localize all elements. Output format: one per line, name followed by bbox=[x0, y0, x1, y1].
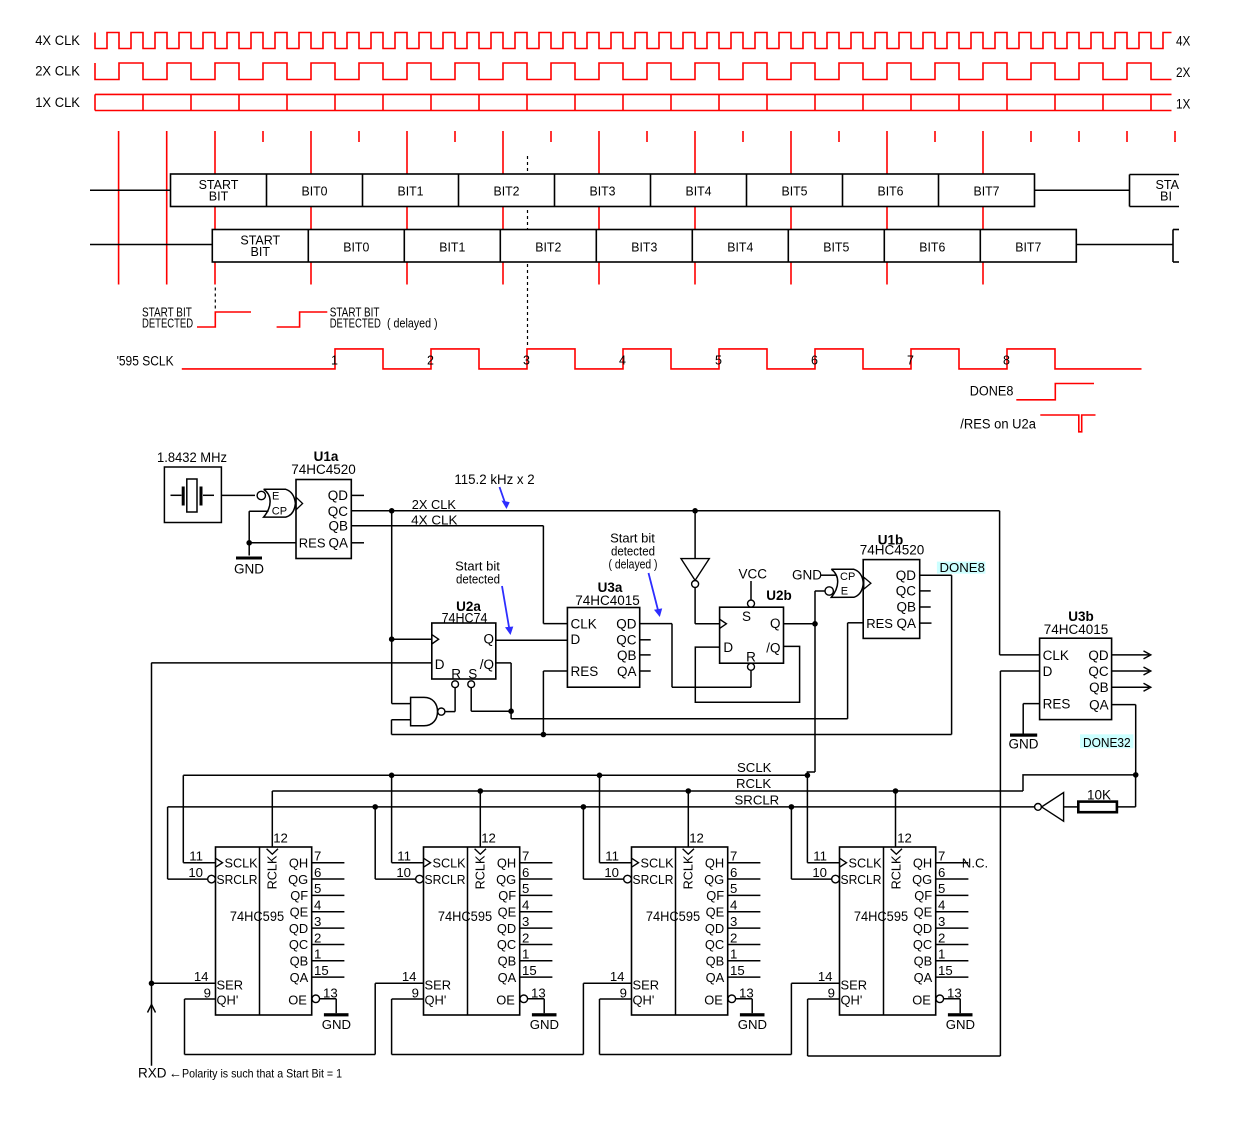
svg-text:QH': QH' bbox=[841, 993, 863, 1008]
svg-text:7: 7 bbox=[730, 849, 737, 864]
svg-text:CLK: CLK bbox=[571, 617, 597, 632]
svg-text:QC: QC bbox=[289, 937, 308, 952]
svg-text:74HC4520: 74HC4520 bbox=[860, 543, 925, 558]
svg-text:Polarity is such that a Start: Polarity is such that a Start Bit = 1 bbox=[182, 1067, 342, 1081]
svg-text:BIT0: BIT0 bbox=[302, 183, 328, 198]
svg-text:QB: QB bbox=[498, 954, 517, 969]
svg-text:QH: QH bbox=[289, 855, 308, 870]
svg-text:7: 7 bbox=[938, 849, 945, 864]
svg-text:/Q: /Q bbox=[480, 657, 494, 672]
svg-text:6: 6 bbox=[811, 354, 818, 368]
svg-text:BIT: BIT bbox=[209, 188, 229, 203]
svg-text:SCLK: SCLK bbox=[849, 856, 883, 870]
svg-text:1: 1 bbox=[730, 947, 737, 962]
svg-text:RCLK: RCLK bbox=[474, 855, 488, 889]
svg-text:OE: OE bbox=[704, 993, 723, 1008]
svg-text:S: S bbox=[468, 667, 477, 682]
svg-text:3: 3 bbox=[938, 914, 945, 929]
svg-text:QC: QC bbox=[705, 937, 724, 952]
svg-text:GND: GND bbox=[530, 1017, 559, 1032]
svg-text:QF: QF bbox=[498, 888, 516, 903]
svg-text:10: 10 bbox=[188, 865, 203, 880]
svg-text:OE: OE bbox=[288, 993, 307, 1008]
svg-text:SCLK: SCLK bbox=[737, 760, 772, 775]
svg-text:QG: QG bbox=[288, 872, 308, 887]
svg-text:QC: QC bbox=[497, 937, 516, 952]
svg-text:2: 2 bbox=[730, 930, 737, 945]
svg-text:RCLK: RCLK bbox=[890, 855, 904, 889]
svg-text:QF: QF bbox=[914, 888, 932, 903]
svg-text:3: 3 bbox=[522, 914, 529, 929]
svg-text:GND: GND bbox=[792, 568, 822, 583]
svg-text:10: 10 bbox=[604, 865, 619, 880]
svg-text:74HC595: 74HC595 bbox=[230, 909, 284, 924]
svg-text:QH': QH' bbox=[217, 993, 239, 1008]
svg-text:14: 14 bbox=[818, 969, 833, 984]
svg-text:4: 4 bbox=[522, 898, 529, 913]
svg-text:R: R bbox=[746, 650, 756, 665]
svg-text:RES: RES bbox=[866, 616, 893, 631]
svg-text:QH: QH bbox=[913, 855, 932, 870]
svg-text:Q: Q bbox=[770, 616, 781, 631]
svg-text:4: 4 bbox=[619, 354, 626, 368]
svg-text:6: 6 bbox=[938, 865, 945, 880]
svg-text:BIT: BIT bbox=[251, 244, 271, 259]
svg-text:4X CLK: 4X CLK bbox=[35, 33, 80, 48]
svg-text:BIT7: BIT7 bbox=[1015, 240, 1041, 255]
svg-text:15: 15 bbox=[730, 963, 745, 978]
svg-text:74HC4520: 74HC4520 bbox=[291, 462, 356, 477]
svg-text:7: 7 bbox=[522, 849, 529, 864]
svg-text:'595 SCLK: '595 SCLK bbox=[117, 354, 174, 369]
svg-text:QB: QB bbox=[1089, 680, 1109, 695]
svg-text:QF: QF bbox=[706, 888, 724, 903]
svg-text:QB: QB bbox=[328, 519, 348, 534]
svg-text:12: 12 bbox=[897, 830, 912, 845]
svg-text:11: 11 bbox=[397, 848, 411, 863]
svg-text:SCLK: SCLK bbox=[225, 856, 259, 870]
svg-text:5: 5 bbox=[938, 881, 945, 896]
svg-text:E: E bbox=[272, 490, 279, 502]
svg-text:RCLK: RCLK bbox=[266, 855, 280, 889]
svg-text:BIT6: BIT6 bbox=[919, 240, 945, 255]
svg-text:RXD: RXD bbox=[138, 1066, 167, 1081]
svg-text:QA: QA bbox=[498, 970, 517, 985]
svg-text:4X: 4X bbox=[1176, 34, 1190, 49]
svg-text:6: 6 bbox=[522, 865, 529, 880]
svg-text:BIT1: BIT1 bbox=[398, 183, 424, 198]
svg-text:QH': QH' bbox=[425, 993, 447, 1008]
svg-text:3: 3 bbox=[314, 914, 321, 929]
svg-text:RES: RES bbox=[1043, 697, 1071, 712]
svg-text:7: 7 bbox=[907, 354, 914, 368]
svg-text:QH': QH' bbox=[633, 993, 655, 1008]
svg-text:1: 1 bbox=[331, 354, 338, 368]
svg-text:74HC595: 74HC595 bbox=[854, 909, 908, 924]
svg-text:2: 2 bbox=[314, 930, 321, 945]
svg-text:QB: QB bbox=[914, 954, 933, 969]
svg-text:12: 12 bbox=[481, 830, 496, 845]
svg-text:SRCLR: SRCLR bbox=[633, 873, 674, 887]
svg-text:U2b: U2b bbox=[766, 588, 792, 603]
svg-text:5: 5 bbox=[314, 881, 321, 896]
svg-text:←: ← bbox=[169, 1066, 182, 1081]
svg-text:OE: OE bbox=[912, 993, 931, 1008]
svg-text:BIT2: BIT2 bbox=[535, 240, 561, 255]
svg-text:74HC4015: 74HC4015 bbox=[575, 593, 640, 608]
svg-text:BIT3: BIT3 bbox=[631, 240, 657, 255]
svg-text:6: 6 bbox=[730, 865, 737, 880]
svg-text:8: 8 bbox=[1003, 354, 1010, 368]
svg-text:GND: GND bbox=[234, 562, 264, 577]
svg-text:BIT5: BIT5 bbox=[782, 183, 808, 198]
svg-text:QA: QA bbox=[896, 616, 916, 631]
svg-text:5: 5 bbox=[522, 881, 529, 896]
svg-text:QD: QD bbox=[289, 921, 308, 936]
svg-text:74HC595: 74HC595 bbox=[646, 909, 700, 924]
svg-text:12: 12 bbox=[273, 830, 288, 845]
svg-text:74HC4015: 74HC4015 bbox=[1044, 622, 1109, 637]
svg-text:QD: QD bbox=[705, 921, 724, 936]
svg-text:BIT4: BIT4 bbox=[727, 240, 753, 255]
svg-text:QD: QD bbox=[896, 568, 917, 583]
svg-text:SER: SER bbox=[633, 978, 660, 993]
svg-text:BIT7: BIT7 bbox=[974, 183, 1000, 198]
svg-text:14: 14 bbox=[402, 969, 417, 984]
svg-text:D: D bbox=[1043, 664, 1053, 679]
svg-text:10: 10 bbox=[396, 865, 411, 880]
svg-text:DONE8: DONE8 bbox=[970, 383, 1014, 398]
svg-text:BIT2: BIT2 bbox=[494, 183, 520, 198]
svg-text:15: 15 bbox=[522, 963, 537, 978]
svg-text:QA: QA bbox=[617, 664, 637, 679]
svg-text:1X CLK: 1X CLK bbox=[35, 95, 80, 110]
svg-text:SER: SER bbox=[841, 978, 868, 993]
svg-text:GND: GND bbox=[738, 1017, 767, 1032]
svg-text:BIT3: BIT3 bbox=[590, 183, 616, 198]
svg-text:12: 12 bbox=[689, 830, 704, 845]
svg-text:QE: QE bbox=[290, 904, 309, 919]
svg-text:CP: CP bbox=[272, 506, 287, 518]
svg-text:QE: QE bbox=[914, 904, 933, 919]
svg-text:S: S bbox=[742, 609, 751, 624]
svg-text:SRCLR: SRCLR bbox=[217, 873, 258, 887]
svg-text:RES: RES bbox=[299, 536, 326, 551]
svg-text:/Q: /Q bbox=[766, 641, 780, 656]
svg-text:1: 1 bbox=[938, 947, 945, 962]
svg-text:RCLK: RCLK bbox=[682, 855, 696, 889]
svg-text:2X CLK: 2X CLK bbox=[35, 64, 80, 79]
svg-text:( delayed ): ( delayed ) bbox=[609, 557, 658, 572]
svg-text:QG: QG bbox=[496, 872, 516, 887]
svg-text:RCLK: RCLK bbox=[736, 776, 771, 791]
svg-text:4X CLK: 4X CLK bbox=[411, 512, 458, 527]
svg-text:D: D bbox=[723, 640, 733, 655]
svg-text:QD: QD bbox=[497, 921, 516, 936]
svg-text:GND: GND bbox=[1009, 737, 1039, 752]
svg-text:74HC595: 74HC595 bbox=[438, 909, 492, 924]
svg-text:2: 2 bbox=[427, 354, 434, 368]
svg-text:QG: QG bbox=[704, 872, 724, 887]
svg-text:7: 7 bbox=[314, 849, 321, 864]
svg-text:DETECTED: DETECTED bbox=[142, 316, 193, 331]
svg-text:4: 4 bbox=[938, 898, 945, 913]
svg-text:14: 14 bbox=[194, 969, 209, 984]
svg-text:D: D bbox=[435, 657, 445, 672]
svg-text:SRCLR: SRCLR bbox=[841, 873, 882, 887]
svg-text:14: 14 bbox=[610, 969, 625, 984]
svg-text:10: 10 bbox=[812, 865, 827, 880]
svg-text:QH: QH bbox=[705, 855, 724, 870]
svg-text:QA: QA bbox=[914, 970, 933, 985]
svg-text:QA: QA bbox=[328, 536, 348, 551]
svg-text:SCLK: SCLK bbox=[433, 856, 467, 870]
svg-text:1X: 1X bbox=[1176, 97, 1190, 112]
svg-text:BI: BI bbox=[1160, 189, 1172, 204]
svg-text:QB: QB bbox=[896, 599, 916, 614]
svg-text:5: 5 bbox=[715, 354, 722, 368]
svg-text:3: 3 bbox=[523, 354, 530, 368]
svg-text:2X CLK: 2X CLK bbox=[412, 497, 456, 512]
svg-text:115.2 kHz x 2: 115.2 kHz x 2 bbox=[454, 472, 534, 487]
svg-text:6: 6 bbox=[314, 865, 321, 880]
svg-text:5: 5 bbox=[730, 881, 737, 896]
svg-text:QC: QC bbox=[896, 584, 917, 599]
svg-text:BIT1: BIT1 bbox=[439, 240, 465, 255]
svg-text:1: 1 bbox=[522, 947, 529, 962]
svg-text:11: 11 bbox=[189, 848, 203, 863]
svg-text:RES: RES bbox=[571, 664, 599, 679]
svg-text:1.8432 MHz: 1.8432 MHz bbox=[157, 450, 227, 465]
svg-text:DETECTED: DETECTED bbox=[330, 316, 381, 331]
svg-text:QD: QD bbox=[913, 921, 932, 936]
svg-text:D: D bbox=[571, 632, 581, 647]
svg-text:2X: 2X bbox=[1176, 65, 1190, 80]
svg-text:SER: SER bbox=[425, 978, 452, 993]
svg-text:11: 11 bbox=[605, 848, 619, 863]
svg-text:QB: QB bbox=[617, 648, 637, 663]
svg-text:N.C.: N.C. bbox=[962, 856, 988, 871]
svg-text:CLK: CLK bbox=[1043, 648, 1069, 663]
svg-text:11: 11 bbox=[813, 848, 827, 863]
svg-text:GND: GND bbox=[946, 1017, 975, 1032]
svg-text:QB: QB bbox=[290, 954, 309, 969]
svg-text:QF: QF bbox=[290, 888, 308, 903]
svg-text:BIT0: BIT0 bbox=[343, 240, 369, 255]
svg-text:QA: QA bbox=[706, 970, 725, 985]
svg-text:( delayed ): ( delayed ) bbox=[387, 316, 438, 331]
svg-text:SRCLR: SRCLR bbox=[735, 792, 780, 807]
svg-text:QC: QC bbox=[616, 633, 637, 648]
svg-text:QC: QC bbox=[328, 504, 349, 519]
svg-text:2: 2 bbox=[522, 930, 529, 945]
svg-text:4: 4 bbox=[314, 898, 321, 913]
svg-text:Q: Q bbox=[483, 632, 494, 647]
svg-text:R: R bbox=[451, 667, 461, 682]
svg-text:DONE32: DONE32 bbox=[1083, 735, 1131, 750]
svg-text:BIT4: BIT4 bbox=[686, 183, 712, 198]
svg-text:E: E bbox=[841, 586, 848, 598]
svg-text:QD: QD bbox=[1088, 648, 1109, 663]
svg-text:BIT6: BIT6 bbox=[878, 183, 904, 198]
svg-text:QC: QC bbox=[913, 937, 932, 952]
svg-text:QD: QD bbox=[616, 617, 637, 632]
svg-text:4: 4 bbox=[730, 898, 737, 913]
svg-text:QE: QE bbox=[498, 904, 517, 919]
svg-text:CP: CP bbox=[840, 571, 855, 583]
svg-text:DONE8: DONE8 bbox=[940, 560, 985, 575]
svg-text:10K: 10K bbox=[1087, 788, 1111, 803]
svg-text:QB: QB bbox=[706, 954, 725, 969]
svg-text:SER: SER bbox=[217, 978, 244, 993]
svg-text:QC: QC bbox=[1088, 664, 1109, 679]
svg-text:detected: detected bbox=[456, 572, 500, 587]
svg-text:QA: QA bbox=[1089, 698, 1109, 713]
svg-text:QA: QA bbox=[290, 970, 309, 985]
svg-text:BIT5: BIT5 bbox=[823, 240, 849, 255]
svg-text:3: 3 bbox=[730, 914, 737, 929]
svg-text:QG: QG bbox=[912, 872, 932, 887]
svg-text:SRCLR: SRCLR bbox=[425, 873, 466, 887]
svg-text:QD: QD bbox=[328, 488, 349, 503]
svg-text:OE: OE bbox=[496, 993, 515, 1008]
svg-text:VCC: VCC bbox=[739, 567, 768, 582]
svg-text:QE: QE bbox=[706, 904, 725, 919]
svg-text:2: 2 bbox=[938, 930, 945, 945]
svg-text:GND: GND bbox=[322, 1017, 351, 1032]
svg-text:/RES on U2a: /RES on U2a bbox=[960, 417, 1036, 432]
svg-text:15: 15 bbox=[314, 963, 329, 978]
svg-text:QH: QH bbox=[497, 855, 516, 870]
svg-text:15: 15 bbox=[938, 963, 953, 978]
svg-text:1: 1 bbox=[314, 947, 321, 962]
svg-text:SCLK: SCLK bbox=[641, 856, 675, 870]
